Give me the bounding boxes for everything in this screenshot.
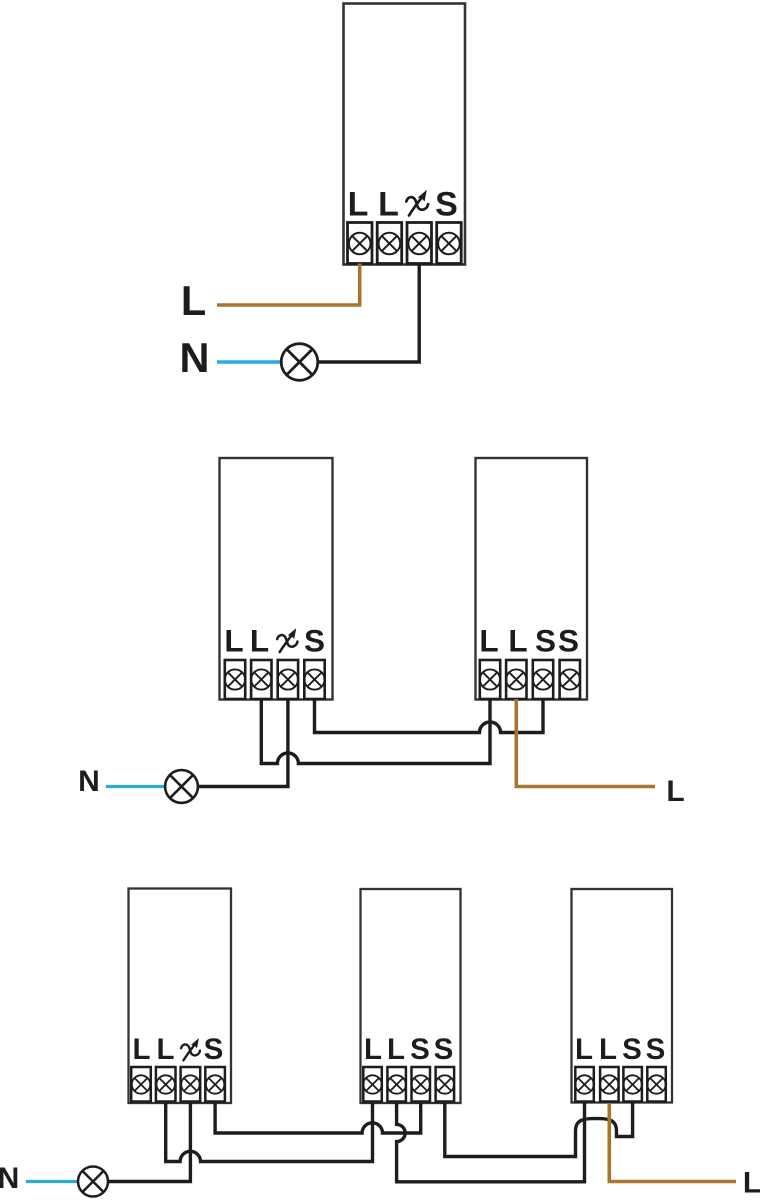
U2 pin label switched-live symbol — [277, 628, 297, 652]
U2 terminal 3 (switched live) — [278, 660, 298, 699]
wire: N feed (blue) — [26, 1180, 79, 1183]
svg-text:L: L — [508, 623, 527, 659]
wire: U5 terminal 4 to U6 terminal 3 (with arch hop over U6 wires) — [445, 1103, 633, 1157]
wire: N feed (blue) — [106, 785, 165, 788]
U4 terminal 4 (S) — [205, 1067, 225, 1102]
U1 terminal 4 (S) — [437, 223, 462, 264]
svg-text:L: L — [575, 1033, 593, 1066]
svg-text:S: S — [304, 623, 325, 659]
sensor U4 — [129, 889, 232, 1104]
svg-text:S: S — [435, 186, 458, 224]
U2 terminal 4 (S) — [304, 660, 324, 699]
svg-text:S: S — [622, 1033, 642, 1066]
U2 terminal 2 (L) — [251, 660, 271, 699]
U6 terminal 4 (S) — [647, 1067, 666, 1102]
U3 terminal 2 (L) — [506, 660, 526, 699]
U4 terminal 1 (L) — [131, 1067, 151, 1102]
svg-text:L: L — [250, 623, 269, 659]
lamp E2 — [165, 770, 198, 803]
svg-text:L: L — [378, 186, 399, 224]
U4 pin label switched-live symbol — [181, 1038, 200, 1060]
wire: U2 terminal 4 to U3 terminal 3 (with hop over U3 terminal 1 wire) — [315, 699, 544, 733]
svg-text:L: L — [743, 1167, 760, 1200]
svg-text:N: N — [78, 765, 100, 798]
sensor U5 — [361, 889, 461, 1103]
wire: L feed to U6 terminal 2 (brown) — [609, 1103, 736, 1182]
wire: U5 terminal 2 to U6 terminal 1 (vertical hop over S wire) — [397, 1103, 585, 1182]
U6 terminal 3 (S) — [623, 1067, 642, 1102]
wire: lamp E3 to U4 terminal 3 — [108, 1103, 190, 1182]
wire: L feed to U3 terminal 2 (brown) — [516, 699, 655, 787]
U3 terminal 3 (S) — [533, 660, 553, 699]
svg-text:L: L — [479, 623, 498, 659]
U5 terminal 4 (S) — [436, 1067, 455, 1102]
U1 terminal 3 (switched live) — [407, 223, 432, 264]
U4 terminal 3 (switched live) — [181, 1067, 201, 1102]
svg-text:S: S — [535, 623, 556, 659]
U6 terminal 2 (L) — [600, 1067, 619, 1102]
wire: U4 terminal 2 to U5 terminal 1 (with hop over switched-live wire) — [166, 1103, 373, 1162]
svg-text:L: L — [181, 277, 206, 324]
svg-text:L: L — [348, 186, 369, 224]
U1 terminal 1 (L) — [348, 223, 373, 264]
U3 terminal 1 (L) — [480, 660, 500, 699]
sensor U2 — [220, 458, 333, 700]
U4 terminal 2 (L) — [156, 1067, 176, 1102]
U5 terminal 2 (L) — [387, 1067, 406, 1102]
wire: lamp E2 to U2 terminal 3 — [198, 699, 288, 787]
U1 terminal 2 (L) — [377, 223, 402, 264]
svg-text:N: N — [180, 334, 210, 381]
U5 terminal 1 (L) — [363, 1067, 382, 1102]
svg-text:L: L — [666, 775, 684, 808]
sensor U3 — [476, 458, 588, 700]
sensor U6 — [572, 889, 673, 1103]
U6 terminal 1 (L) — [575, 1067, 594, 1102]
svg-text:L: L — [364, 1033, 382, 1066]
U5 terminal 3 (S) — [412, 1067, 431, 1102]
svg-text:N: N — [0, 1162, 19, 1195]
svg-text:S: S — [204, 1033, 224, 1066]
wire: U4 terminal 4 to U5 terminal 3 (with hop over U5 terminal 1 wire) — [215, 1103, 421, 1133]
wire: U2 terminal 2 to U3 terminal 1 (with hop over switched-live wire) — [261, 699, 490, 764]
U3 terminal 4 (S) — [560, 660, 580, 699]
U2 terminal 1 (L) — [225, 660, 245, 699]
lamp E1 — [281, 344, 318, 381]
svg-text:S: S — [646, 1033, 666, 1066]
lamp E3 — [78, 1167, 108, 1197]
wire: lamp E1 to U1 terminal 3 — [318, 264, 419, 363]
svg-text:L: L — [156, 1033, 174, 1066]
sensor U1 — [344, 4, 466, 265]
wire: N feed (blue) — [217, 360, 281, 363]
wire: L feed to U1 terminal 1 (brown) — [217, 264, 360, 306]
svg-text:L: L — [599, 1033, 617, 1066]
U1 pin label switched-live symbol — [406, 190, 428, 216]
svg-text:L: L — [224, 623, 243, 659]
svg-text:S: S — [410, 1033, 430, 1066]
svg-text:L: L — [132, 1033, 150, 1066]
svg-text:L: L — [387, 1033, 405, 1066]
svg-text:S: S — [558, 623, 579, 659]
svg-text:S: S — [434, 1033, 454, 1066]
